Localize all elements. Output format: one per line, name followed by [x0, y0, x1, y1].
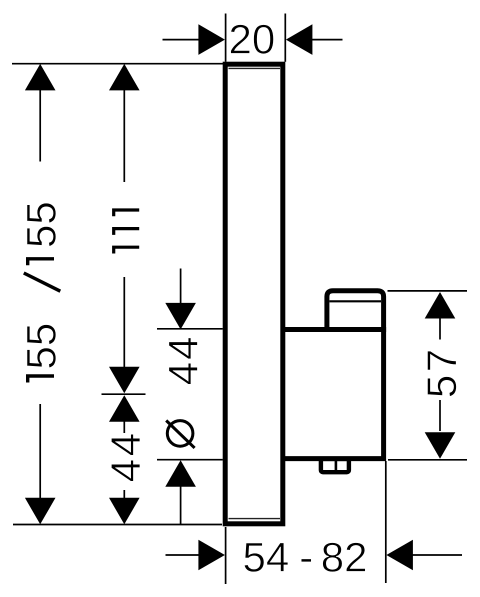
dim 155 extension line bottom	[13, 524, 222, 526]
dim 57 arrowhead up	[425, 292, 456, 319]
bottom tab divider	[335, 458, 338, 472]
dim 54-82 extension line right	[385, 461, 387, 583]
dim 54-82 extension line left	[225, 527, 227, 584]
dim 44 left arrowhead up	[109, 395, 140, 422]
dim 111 arrowhead down	[109, 367, 140, 394]
svg-text:44: 44	[102, 430, 149, 482]
dim 155 shaft upper	[39, 89, 41, 162]
dim 20 shaft left	[163, 39, 201, 41]
dim 54-82 shaft right	[412, 554, 462, 556]
dim 54-82 shaft left	[166, 554, 201, 556]
dim 54-82 arrowhead right	[198, 540, 225, 571]
plate outline	[225, 64, 283, 524]
dim 57 arrowhead down	[425, 432, 456, 459]
dim 111 arrowhead up	[109, 64, 140, 91]
dim 111/44 tick	[102, 393, 146, 395]
dim dia44 extension line bottom	[157, 459, 223, 461]
valve block outline	[282, 330, 384, 459]
bottom tab	[321, 459, 349, 472]
plate inner bottom line	[229, 518, 281, 520]
dim dia44 arrowhead up	[165, 460, 196, 487]
dim 57 shaft lower	[439, 400, 441, 431]
dim 44 left shaft stub upper	[123, 421, 125, 433]
label 155 upper part: slash of /155	[24, 273, 61, 291]
svg-text:55: 55	[17, 323, 64, 370]
dim 54-82 arrowhead left	[386, 540, 413, 571]
svg-text:54 -82: 54 -82	[243, 534, 368, 581]
dim 20 shaft right	[312, 39, 343, 41]
dim 155 shaft lower	[39, 404, 41, 500]
dim 20 arrowhead left	[198, 24, 225, 55]
svg-text:57: 57	[418, 346, 465, 398]
dim 44 left shaft stub lower	[123, 490, 125, 499]
label 155 upper part: digit 1 of /155	[24, 259, 61, 291]
dim dia44 extension line top	[157, 328, 223, 330]
dim 155 extension line top	[12, 63, 223, 65]
svg-text:55: 55	[17, 201, 64, 248]
svg-text:20: 20	[229, 16, 276, 63]
label dia44 diameter symbol	[166, 421, 194, 448]
dim 20 extension line left	[225, 14, 227, 62]
plate inner top line	[229, 67, 281, 69]
dim 20 extension line right	[284, 14, 286, 62]
dim 57 extension line top	[388, 290, 468, 292]
dim dia44 arrowhead down	[165, 303, 196, 330]
dim dia44 shaft upper	[180, 269, 182, 305]
dim 155 arrowhead up	[25, 64, 56, 91]
dim 57 shaft upper	[439, 318, 441, 340]
dim dia44 shaft lower	[180, 486, 182, 524]
dim 111 shaft lower	[123, 277, 125, 368]
dim 44 left arrowhead down	[109, 498, 140, 525]
handle cap outline	[327, 291, 384, 332]
dim 20 arrowhead right	[286, 24, 313, 55]
dim 155 arrowhead down	[25, 498, 56, 525]
label 111 drawn digits	[114, 210, 140, 254]
label 155 lower part: digit 1 of 155	[28, 376, 54, 383]
dim 111 shaft upper	[123, 89, 125, 182]
svg-text:44: 44	[159, 334, 206, 385]
dim 57 extension line bottom	[388, 459, 467, 461]
handle cap inner line	[330, 300, 382, 302]
